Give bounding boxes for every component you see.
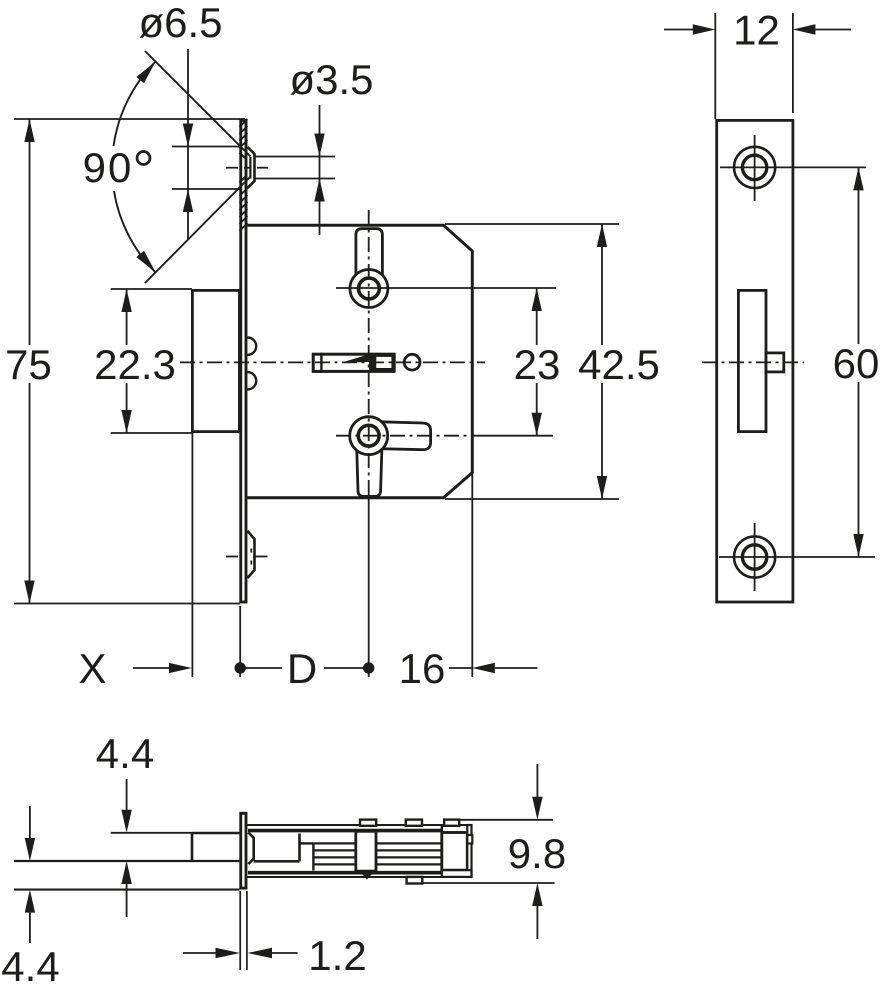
guide bumps on faceplate right edge bbox=[248, 338, 257, 390]
dim 4.4 (upper, rod offset) bbox=[96, 730, 192, 917]
dim ø6.5 (countersink dia) bbox=[138, 0, 241, 240]
right latch block bbox=[442, 825, 468, 870]
top wing hole crossline (ext. line for dim 23) bbox=[336, 287, 556, 289]
actuating rod (left of plate) bbox=[14, 861, 240, 890]
ext. line from lock axis bbox=[368, 499, 370, 677]
latch opening slot (face view) bbox=[738, 290, 766, 431]
dim 22.3 (block height) bbox=[94, 289, 192, 433]
left cavity of case bbox=[254, 834, 314, 871]
svg-text:90: 90 bbox=[83, 144, 134, 191]
top thumb-turn wing (stem + boss) bbox=[350, 229, 388, 308]
svg-text:16: 16 bbox=[399, 645, 446, 692]
screw dimple behind plate (bevelled wall) bbox=[248, 833, 253, 865]
dim ø3.5 (screw hole dia) bbox=[289, 56, 373, 235]
svg-text:22.3: 22.3 bbox=[94, 341, 176, 388]
node: lock axis bullet bbox=[363, 662, 374, 673]
svg-text:60: 60 bbox=[833, 340, 880, 387]
dim 9.8 (case thickness) bbox=[422, 764, 566, 939]
latch slot (center of case) bbox=[313, 353, 396, 373]
vertical centerline of lock (dash-dot) bbox=[368, 210, 370, 499]
bottom thumb-turn wing (boss + right arm + lower stem) bbox=[350, 417, 431, 497]
faceplate section hatching (below top screw hole) bbox=[240, 188, 248, 231]
svg-text:D: D bbox=[287, 645, 317, 692]
dim 75 (faceplate length) bbox=[5, 119, 245, 604]
svg-text:42.5: 42.5 bbox=[578, 341, 660, 388]
hole edge lines (also ext. lines for dim ø3.5) bbox=[255, 156, 336, 158]
mounting block / dust box (rectangle left of faceplate) bbox=[192, 290, 239, 431]
dim 4.4 (lower, rod thickness) bbox=[1, 806, 59, 990]
countersunk screw hole, bottom (profile) bbox=[226, 531, 268, 578]
small follower hole right of latch slot bbox=[404, 354, 420, 370]
lock case (bottom view) outer top/bottom walls bbox=[248, 825, 472, 877]
ext. line from left block bbox=[191, 433, 193, 677]
svg-text:9.8: 9.8 bbox=[508, 830, 566, 877]
bottom wing centerline (dash-dot) bbox=[336, 435, 471, 437]
spring stack (right group of lamellae) bbox=[376, 843, 442, 864]
spring stack (left group of lamellae) bbox=[313, 843, 355, 864]
rivet tab on bottom wall bbox=[407, 877, 423, 884]
faceplate FP1 (face view) bbox=[717, 120, 793, 602]
faceplate FP1 (edge-on, bottom view) bbox=[241, 813, 246, 888]
svg-text:75: 75 bbox=[5, 341, 52, 388]
central post bbox=[356, 831, 376, 871]
ext. line from faceplate bbox=[239, 606, 241, 677]
bottom right section bbox=[442, 870, 472, 877]
svg-text:12: 12 bbox=[733, 7, 780, 54]
faceplate FP1 (front view, sectioned strip) bbox=[241, 120, 246, 602]
top screw hole (face view) bbox=[720, 135, 866, 201]
case right wall bbox=[467, 825, 472, 877]
ext. line from case right edge bbox=[471, 474, 473, 677]
svg-text:1.2: 1.2 bbox=[308, 932, 366, 979]
node: backset reference bullet at faceplate bbox=[235, 662, 246, 673]
dim 90° (countersink angle, construction lines + arc) bbox=[83, 51, 251, 283]
dim 1.2 (plate thickness) bbox=[183, 891, 367, 979]
countersunk screw hole, top (section with pressed dimple) bbox=[226, 147, 335, 188]
svg-text:23: 23 bbox=[514, 341, 561, 388]
dim 42.5 (case height) bbox=[445, 224, 660, 499]
bottom screw hole (face view) bbox=[719, 523, 875, 591]
svg-text:4.4: 4.4 bbox=[1, 943, 59, 990]
dim 12 (plate width) bbox=[664, 7, 851, 120]
svg-text:ø3.5: ø3.5 bbox=[289, 56, 373, 103]
svg-text:4.4: 4.4 bbox=[96, 730, 154, 777]
dim 60 (screw hole spacing) bbox=[833, 167, 880, 557]
rivet tabs on top wall bbox=[360, 820, 459, 826]
svg-text:ø6.5: ø6.5 bbox=[138, 0, 222, 46]
svg-text:X: X bbox=[78, 645, 106, 692]
bottom dimension row X / D / 16 bbox=[78, 433, 537, 692]
faceplate section hatching (upper) bbox=[240, 119, 248, 148]
rod end block bbox=[192, 833, 240, 861]
dim 23 (wing hole spacing) bbox=[473, 288, 560, 436]
small pointer under case bbox=[363, 875, 372, 880]
centerline of plate (dash-dot) bbox=[702, 361, 804, 363]
lock case body (front view outline with chamfered right corners) bbox=[248, 225, 473, 498]
horizontal centerline through lock (dash-dot) bbox=[180, 361, 485, 363]
trigger pin tab in slot bbox=[766, 353, 784, 372]
center tick of top hole bbox=[226, 167, 238, 169]
